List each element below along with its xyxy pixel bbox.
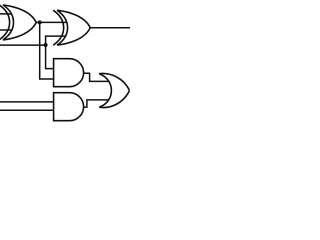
node junction XOR1 out bbox=[38, 20, 42, 24]
xor gate U2 input arc bbox=[53, 10, 64, 45]
and gate U4 bbox=[54, 93, 84, 121]
wire AND1 to OR bbox=[84, 73, 113, 81]
wire input B to AND2 bbox=[0, 109, 60, 111]
wire XOR1 out to XOR2 bbox=[36, 21, 70, 23]
wire AND2 to OR bbox=[84, 100, 112, 107]
and gate U3 bbox=[54, 59, 84, 87]
xor gate U2 body bbox=[57, 10, 90, 45]
wire input A bbox=[0, 13, 20, 15]
node junction Cin bbox=[44, 43, 48, 47]
wire Cin down to AND1 bbox=[46, 45, 56, 69]
wire sum S output bbox=[90, 27, 130, 29]
wire input Cin bbox=[0, 44, 46, 46]
wire input B bbox=[0, 29, 20, 31]
wire input A to AND2 bbox=[0, 101, 60, 103]
wire XOR1 out down to AND1 bbox=[40, 22, 56, 79]
or gate U5 bbox=[99, 73, 129, 107]
xor gate U1 input arc bbox=[0, 5, 10, 40]
wire Cin up to XOR2 bbox=[46, 36, 68, 45]
xor gate U1 body bbox=[3, 5, 36, 40]
